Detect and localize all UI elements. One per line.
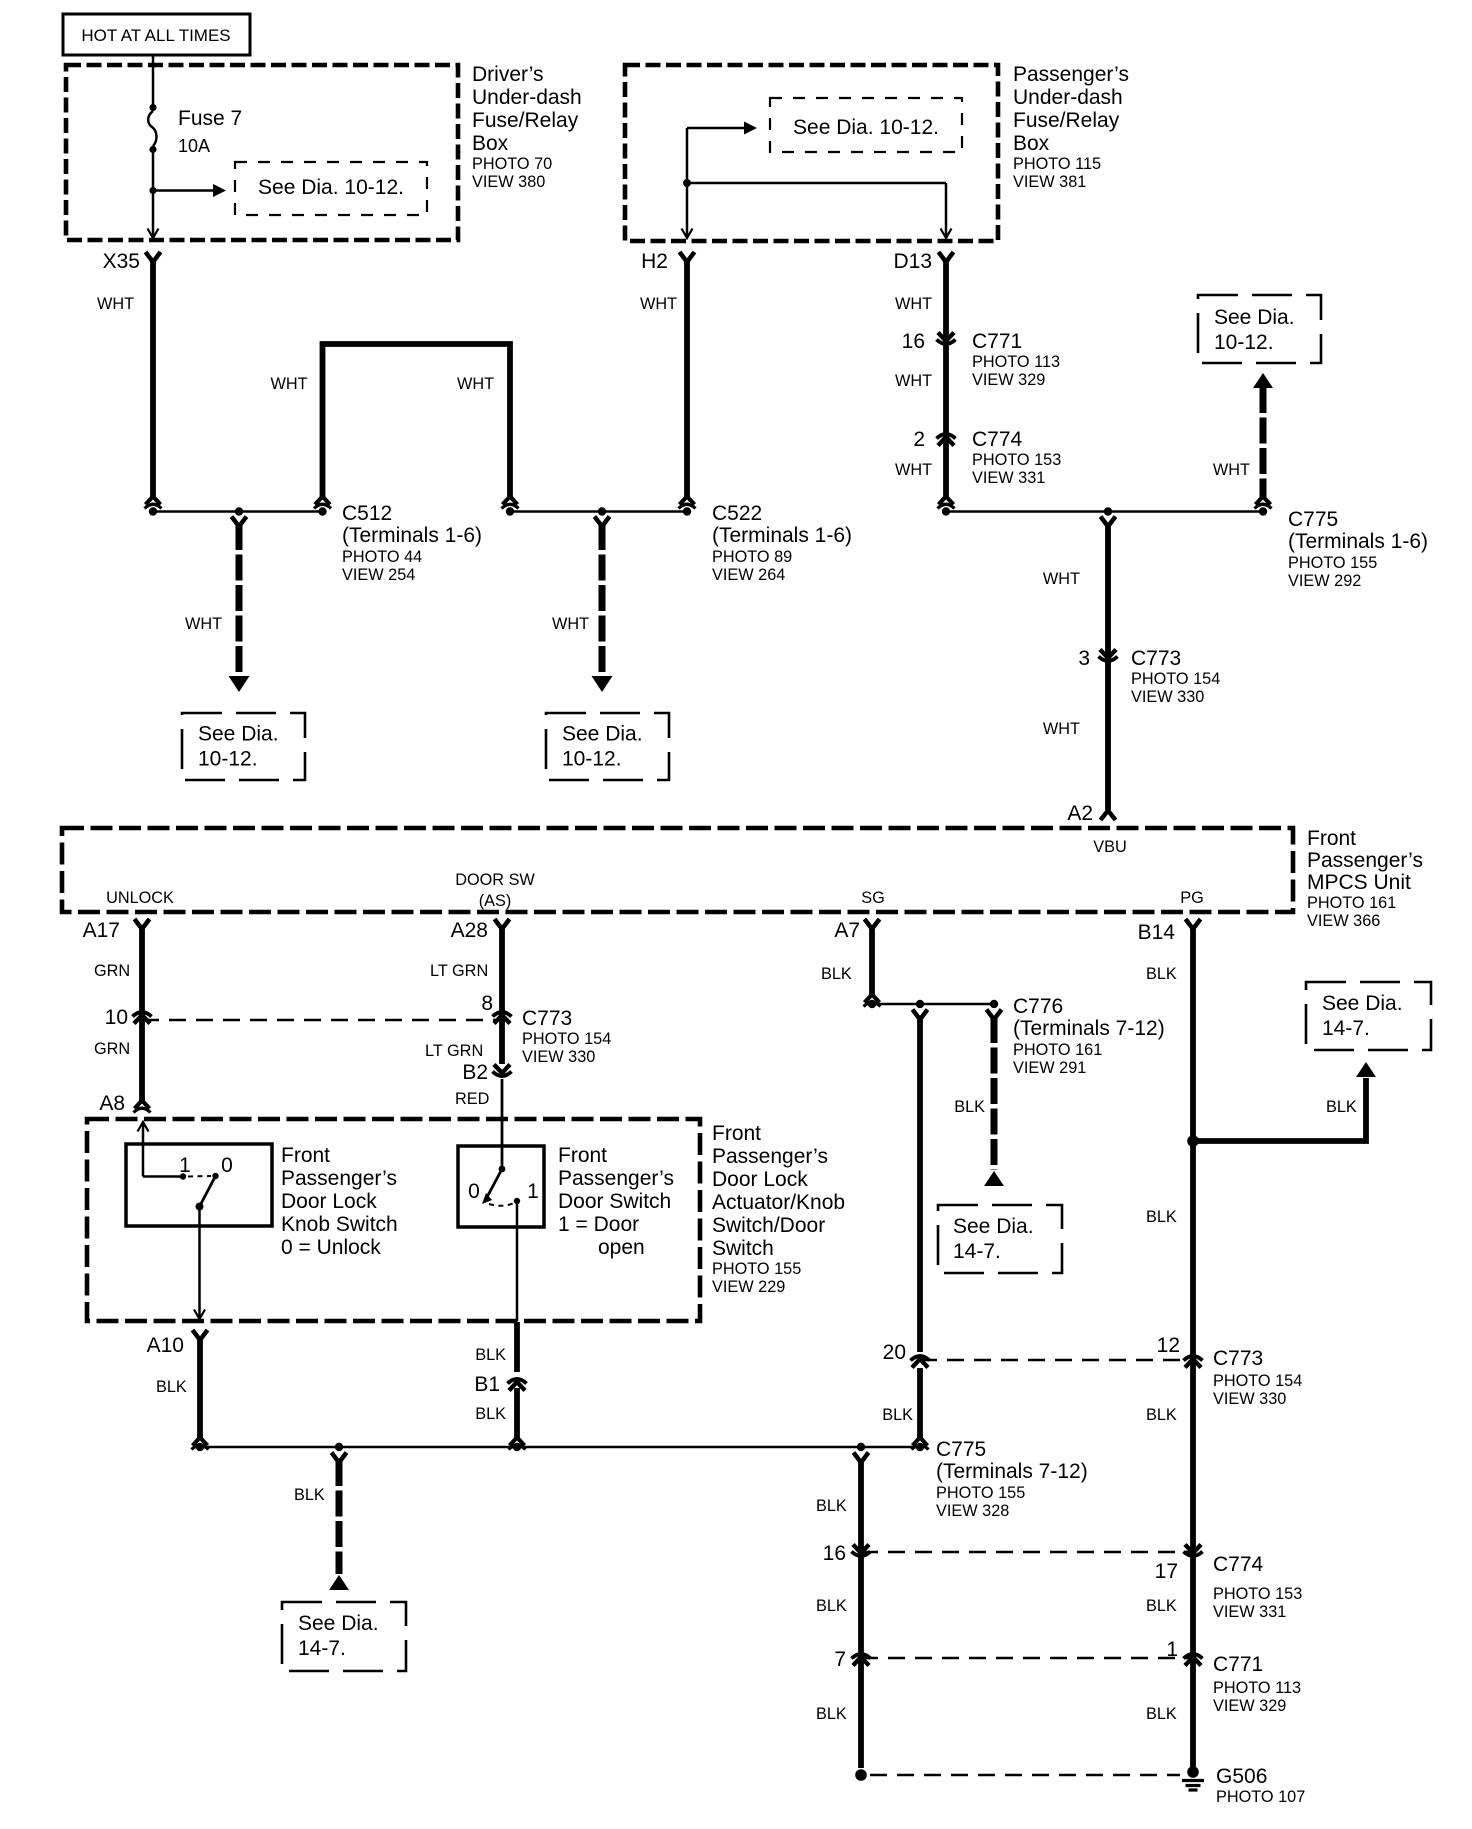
svg-text:B14: B14 (1138, 921, 1176, 944)
svg-text:Driver’s: Driver’s (472, 63, 544, 86)
svg-text:A2: A2 (1067, 802, 1093, 825)
svg-text:BLK: BLK (1146, 1406, 1177, 1424)
svg-text:20: 20 (883, 1341, 906, 1364)
svg-text:BLK: BLK (1146, 1597, 1177, 1615)
svg-text:VBU: VBU (1093, 838, 1126, 856)
svg-text:BLK: BLK (475, 1405, 506, 1423)
svg-text:10-12.: 10-12. (198, 748, 258, 771)
svg-text:RED: RED (455, 1090, 489, 1108)
svg-text:C512: C512 (342, 502, 392, 525)
svg-text:VIEW 291: VIEW 291 (1013, 1059, 1086, 1077)
svg-text:C771: C771 (1213, 1653, 1263, 1676)
svg-text:GRN: GRN (94, 1040, 130, 1058)
svg-text:B2: B2 (462, 1061, 488, 1084)
svg-text:7: 7 (834, 1648, 846, 1671)
svg-text:VIEW 330: VIEW 330 (1131, 688, 1204, 706)
svg-text:PHOTO 107: PHOTO 107 (1216, 1788, 1305, 1806)
svg-text:BLK: BLK (954, 1098, 985, 1116)
svg-text:Actuator/Knob: Actuator/Knob (712, 1191, 845, 1214)
svg-text:C776: C776 (1013, 995, 1063, 1018)
svg-text:DOOR SW: DOOR SW (455, 871, 535, 889)
svg-text:C775: C775 (1288, 508, 1338, 531)
svg-text:PHOTO 155: PHOTO 155 (712, 1260, 801, 1278)
svg-text:Fuse/Relay: Fuse/Relay (1013, 109, 1120, 132)
svg-text:See Dia.: See Dia. (298, 1612, 379, 1635)
svg-text:PHOTO 155: PHOTO 155 (1288, 554, 1377, 572)
svg-text:WHT: WHT (185, 615, 222, 633)
svg-text:VIEW 366: VIEW 366 (1307, 912, 1380, 930)
svg-text:BLK: BLK (475, 1346, 506, 1364)
svg-text:BLK: BLK (1146, 965, 1177, 983)
svg-text:PHOTO 113: PHOTO 113 (972, 353, 1060, 371)
svg-text:X35: X35 (103, 250, 140, 273)
svg-text:1: 1 (179, 1154, 191, 1177)
svg-text:LT GRN: LT GRN (430, 962, 488, 980)
svg-text:Knob Switch: Knob Switch (281, 1213, 398, 1236)
svg-text:BLK: BLK (882, 1406, 913, 1424)
svg-text:BLK: BLK (294, 1486, 325, 1504)
svg-text:PHOTO 155: PHOTO 155 (936, 1484, 1025, 1502)
svg-text:PHOTO 161: PHOTO 161 (1307, 894, 1396, 912)
svg-text:WHT: WHT (552, 615, 589, 633)
svg-text:(Terminals 1-6): (Terminals 1-6) (342, 524, 482, 547)
svg-text:HOT AT ALL TIMES: HOT AT ALL TIMES (81, 26, 230, 45)
svg-text:PHOTO 153: PHOTO 153 (972, 451, 1061, 469)
svg-text:PHOTO 153: PHOTO 153 (1213, 1585, 1302, 1603)
svg-text:Door Switch: Door Switch (558, 1190, 671, 1213)
svg-text:3: 3 (1078, 647, 1090, 670)
svg-text:C773: C773 (1213, 1347, 1263, 1370)
svg-text:A7: A7 (834, 919, 860, 942)
svg-text:Passenger’s: Passenger’s (1013, 63, 1129, 86)
svg-text:See Dia. 10-12.: See Dia. 10-12. (793, 116, 939, 139)
svg-text:A28: A28 (451, 919, 488, 942)
svg-text:WHT: WHT (271, 375, 308, 393)
svg-text:A8: A8 (99, 1092, 125, 1115)
svg-text:C773: C773 (522, 1007, 572, 1030)
svg-text:VIEW 264: VIEW 264 (712, 566, 785, 584)
svg-text:0: 0 (468, 1180, 480, 1203)
svg-text:Fuse 7: Fuse 7 (178, 107, 242, 130)
svg-text:UNLOCK: UNLOCK (106, 889, 174, 907)
svg-text:Front: Front (281, 1144, 330, 1167)
svg-text:Box: Box (1013, 132, 1050, 155)
svg-text:C774: C774 (972, 428, 1023, 451)
svg-text:PHOTO 115: PHOTO 115 (1013, 155, 1101, 173)
svg-text:See Dia.: See Dia. (198, 723, 279, 746)
svg-text:VIEW 330: VIEW 330 (1213, 1390, 1286, 1408)
svg-text:WHT: WHT (457, 375, 494, 393)
svg-text:1: 1 (527, 1180, 539, 1203)
svg-text:PHOTO 44: PHOTO 44 (342, 548, 422, 566)
svg-text:BLK: BLK (1146, 1705, 1177, 1723)
svg-text:2: 2 (913, 428, 925, 451)
svg-text:D13: D13 (893, 250, 932, 273)
svg-text:PHOTO 89: PHOTO 89 (712, 548, 792, 566)
svg-text:12: 12 (1157, 1334, 1180, 1357)
svg-text:0 = Unlock: 0 = Unlock (281, 1236, 381, 1259)
svg-text:WHT: WHT (97, 295, 134, 313)
svg-text:10A: 10A (178, 136, 210, 156)
svg-text:Passenger’s: Passenger’s (712, 1145, 828, 1168)
svg-text:14-7.: 14-7. (953, 1240, 1001, 1263)
svg-text:Passenger’s: Passenger’s (1307, 849, 1423, 872)
svg-text:Under-dash: Under-dash (472, 86, 582, 109)
svg-text:C522: C522 (712, 502, 762, 525)
svg-text:14-7.: 14-7. (1322, 1017, 1370, 1040)
svg-text:VIEW 331: VIEW 331 (1213, 1603, 1286, 1621)
svg-text:MPCS Unit: MPCS Unit (1307, 871, 1411, 894)
svg-text:10-12.: 10-12. (1214, 331, 1274, 354)
svg-text:Door Lock: Door Lock (712, 1168, 808, 1191)
svg-text:Under-dash: Under-dash (1013, 86, 1123, 109)
svg-text:GRN: GRN (94, 962, 130, 980)
svg-text:WHT: WHT (640, 295, 677, 313)
svg-text:VIEW 329: VIEW 329 (972, 371, 1045, 389)
svg-text:Passenger’s: Passenger’s (281, 1167, 397, 1190)
svg-text:WHT: WHT (895, 372, 932, 390)
svg-text:WHT: WHT (1043, 570, 1080, 588)
svg-text:H2: H2 (641, 250, 668, 273)
svg-text:See Dia. 10-12.: See Dia. 10-12. (258, 176, 404, 199)
svg-text:SG: SG (861, 889, 885, 907)
svg-text:16: 16 (823, 1542, 846, 1565)
svg-text:BLK: BLK (816, 1705, 847, 1723)
svg-text:10: 10 (105, 1006, 128, 1029)
svg-text:VIEW 229: VIEW 229 (712, 1278, 785, 1296)
svg-text:Passenger’s: Passenger’s (558, 1167, 674, 1190)
svg-text:VIEW 381: VIEW 381 (1013, 173, 1086, 191)
svg-text:(Terminals 7-12): (Terminals 7-12) (936, 1460, 1088, 1483)
svg-text:Fuse/Relay: Fuse/Relay (472, 109, 579, 132)
svg-text:BLK: BLK (821, 965, 852, 983)
svg-text:BLK: BLK (816, 1597, 847, 1615)
svg-text:VIEW 254: VIEW 254 (342, 566, 415, 584)
svg-text:open: open (598, 1236, 645, 1259)
svg-text:WHT: WHT (895, 461, 932, 479)
svg-text:C774: C774 (1213, 1553, 1264, 1576)
svg-text:See Dia.: See Dia. (1322, 992, 1403, 1015)
svg-text:A17: A17 (83, 919, 120, 942)
svg-text:1 = Door: 1 = Door (558, 1213, 639, 1236)
svg-text:PHOTO 154: PHOTO 154 (1213, 1372, 1302, 1390)
svg-text:16: 16 (902, 330, 925, 353)
svg-text:0: 0 (221, 1154, 233, 1177)
svg-text:Front: Front (558, 1144, 607, 1167)
svg-text:(Terminals 7-12): (Terminals 7-12) (1013, 1017, 1165, 1040)
svg-text:BLK: BLK (156, 1378, 187, 1396)
svg-text:17: 17 (1155, 1560, 1178, 1583)
svg-text:VIEW 292: VIEW 292 (1288, 572, 1361, 590)
svg-text:PHOTO 154: PHOTO 154 (522, 1030, 611, 1048)
svg-text:VIEW 380: VIEW 380 (472, 173, 545, 191)
svg-text:See Dia.: See Dia. (953, 1215, 1034, 1238)
svg-text:8: 8 (481, 992, 493, 1015)
svg-text:C773: C773 (1131, 647, 1181, 670)
svg-text:A10: A10 (147, 1334, 184, 1357)
svg-text:G506: G506 (1216, 1765, 1267, 1788)
svg-text:14-7.: 14-7. (298, 1637, 346, 1660)
svg-text:Switch/Door: Switch/Door (712, 1214, 825, 1237)
svg-text:PG: PG (1180, 889, 1204, 907)
svg-text:VIEW 328: VIEW 328 (936, 1502, 1009, 1520)
svg-text:See Dia.: See Dia. (1214, 306, 1295, 329)
svg-text:See Dia.: See Dia. (562, 723, 643, 746)
svg-text:(AS): (AS) (479, 892, 512, 910)
svg-text:WHT: WHT (895, 295, 932, 313)
svg-text:BLK: BLK (1146, 1208, 1177, 1226)
svg-text:Box: Box (472, 132, 509, 155)
svg-text:C771: C771 (972, 330, 1022, 353)
svg-text:PHOTO 161: PHOTO 161 (1013, 1041, 1102, 1059)
svg-text:Front: Front (1307, 827, 1356, 850)
svg-text:(Terminals 1-6): (Terminals 1-6) (1288, 530, 1428, 553)
svg-text:WHT: WHT (1043, 720, 1080, 738)
svg-text:Switch: Switch (712, 1237, 774, 1260)
svg-text:VIEW 331: VIEW 331 (972, 469, 1045, 487)
svg-text:BLK: BLK (1326, 1098, 1357, 1116)
svg-text:PHOTO 113: PHOTO 113 (1213, 1679, 1301, 1697)
svg-text:VIEW 329: VIEW 329 (1213, 1697, 1286, 1715)
svg-text:PHOTO 154: PHOTO 154 (1131, 670, 1220, 688)
svg-text:B1: B1 (474, 1373, 500, 1396)
svg-text:(Terminals 1-6): (Terminals 1-6) (712, 524, 852, 547)
svg-text:WHT: WHT (1213, 461, 1250, 479)
svg-text:PHOTO 70: PHOTO 70 (472, 155, 552, 173)
svg-text:10-12.: 10-12. (562, 748, 622, 771)
svg-text:Front: Front (712, 1122, 761, 1145)
svg-text:BLK: BLK (816, 1497, 847, 1515)
svg-text:Door Lock: Door Lock (281, 1190, 377, 1213)
svg-text:C775: C775 (936, 1438, 986, 1461)
svg-text:LT GRN: LT GRN (425, 1042, 483, 1060)
svg-text:VIEW 330: VIEW 330 (522, 1048, 595, 1066)
